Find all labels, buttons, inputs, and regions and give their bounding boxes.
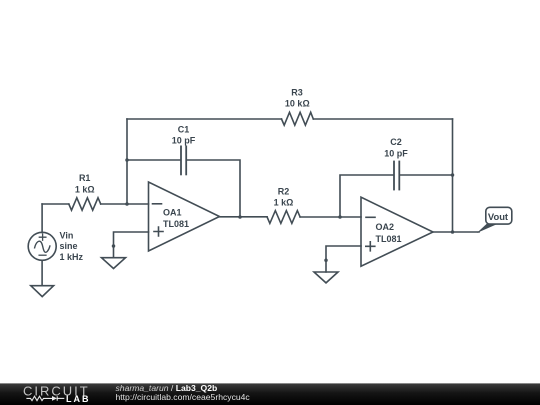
svg-text:OA1: OA1 — [163, 208, 182, 218]
svg-text:C1: C1 — [178, 125, 190, 135]
svg-text:10 pF: 10 pF — [384, 149, 408, 159]
svg-text:R1: R1 — [79, 173, 91, 183]
svg-text:R3: R3 — [291, 87, 303, 97]
svg-text:1 kΩ: 1 kΩ — [75, 184, 95, 194]
svg-text:10 pF: 10 pF — [172, 135, 196, 145]
svg-text:Vin: Vin — [60, 230, 74, 240]
svg-text:TL081: TL081 — [376, 234, 402, 244]
svg-text:sine: sine — [60, 241, 78, 251]
svg-text:OA2: OA2 — [376, 222, 395, 232]
svg-text:1 kHz: 1 kHz — [60, 252, 84, 262]
svg-text:C2: C2 — [390, 137, 402, 147]
svg-text:TL081: TL081 — [163, 219, 189, 229]
svg-text:1 kΩ: 1 kΩ — [274, 197, 294, 207]
svg-text:LAB: LAB — [66, 394, 91, 404]
svg-text:10 kΩ: 10 kΩ — [285, 98, 310, 108]
svg-text:Vout: Vout — [488, 211, 508, 222]
svg-text:http://circuitlab.com/ceae5rhc: http://circuitlab.com/ceae5rhcycu4c — [116, 392, 251, 402]
svg-text:R2: R2 — [278, 186, 290, 196]
